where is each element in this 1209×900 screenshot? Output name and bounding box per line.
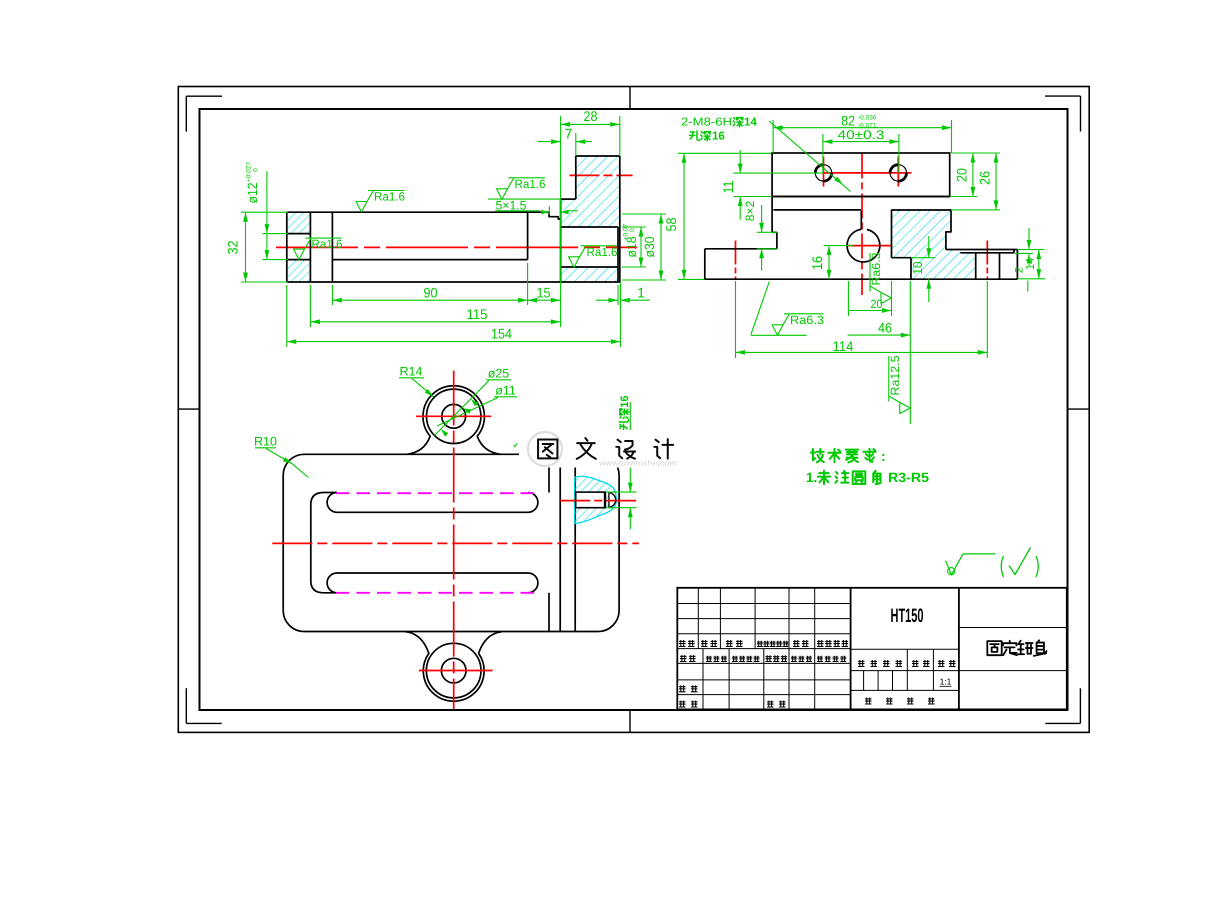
svg-text:115: 115 bbox=[467, 306, 488, 322]
svg-text:Ra12.5: Ra12.5 bbox=[888, 355, 902, 395]
svg-text:Ra6.3: Ra6.3 bbox=[869, 252, 883, 285]
svg-text:R3-R5: R3-R5 bbox=[888, 470, 930, 485]
svg-text:0: 0 bbox=[629, 228, 636, 232]
svg-text:20: 20 bbox=[954, 168, 970, 182]
svg-text:1:1: 1:1 bbox=[940, 677, 952, 687]
svg-text:40±0.3: 40±0.3 bbox=[838, 128, 885, 142]
svg-text:0: 0 bbox=[253, 168, 260, 172]
svg-text::: : bbox=[881, 448, 886, 464]
svg-text:114: 114 bbox=[833, 338, 854, 354]
svg-text:+0.027: +0.027 bbox=[246, 162, 253, 182]
svg-text:R10: R10 bbox=[254, 435, 277, 449]
svg-text:Ra1.6: Ra1.6 bbox=[312, 237, 343, 251]
svg-text:28: 28 bbox=[584, 108, 598, 124]
svg-text:1.: 1. bbox=[806, 470, 817, 485]
svg-text:154: 154 bbox=[491, 326, 512, 342]
svg-text:ø12: ø12 bbox=[245, 183, 260, 204]
svg-text:11: 11 bbox=[720, 180, 736, 193]
svg-text:16: 16 bbox=[809, 256, 825, 270]
svg-text:32: 32 bbox=[225, 240, 241, 254]
svg-text:Ra6.3: Ra6.3 bbox=[790, 313, 824, 327]
svg-text:90: 90 bbox=[424, 285, 438, 301]
svg-text:7: 7 bbox=[565, 126, 573, 142]
svg-text:58: 58 bbox=[663, 217, 679, 231]
svg-text:14: 14 bbox=[1023, 258, 1037, 270]
svg-text:Ra1.6: Ra1.6 bbox=[587, 245, 618, 259]
svg-text:HT150: HT150 bbox=[891, 605, 924, 627]
svg-text:R14: R14 bbox=[400, 365, 423, 379]
svg-text:ø25: ø25 bbox=[488, 367, 510, 381]
svg-text:10: 10 bbox=[910, 262, 925, 275]
svg-text:14: 14 bbox=[744, 117, 757, 129]
svg-text:15: 15 bbox=[537, 285, 551, 301]
svg-text:ø11: ø11 bbox=[495, 384, 516, 398]
svg-text:Ra1.6: Ra1.6 bbox=[374, 190, 405, 204]
svg-text:wwwtuwenshejcom: wwwtuwenshejcom bbox=[598, 459, 677, 468]
svg-text:ø30: ø30 bbox=[642, 237, 657, 258]
svg-text:2-M8-6H: 2-M8-6H bbox=[681, 117, 732, 129]
svg-text:46: 46 bbox=[878, 320, 892, 336]
svg-text:16: 16 bbox=[712, 131, 725, 143]
svg-text:26: 26 bbox=[977, 171, 993, 185]
svg-text:5×1.5: 5×1.5 bbox=[496, 198, 527, 212]
svg-text:16: 16 bbox=[619, 395, 631, 407]
svg-text:82: 82 bbox=[841, 113, 855, 129]
svg-text:-0.036: -0.036 bbox=[858, 115, 877, 122]
svg-text:8×2: 8×2 bbox=[743, 200, 757, 221]
svg-text:Ra1.6: Ra1.6 bbox=[515, 177, 546, 191]
svg-text:1: 1 bbox=[637, 285, 645, 301]
